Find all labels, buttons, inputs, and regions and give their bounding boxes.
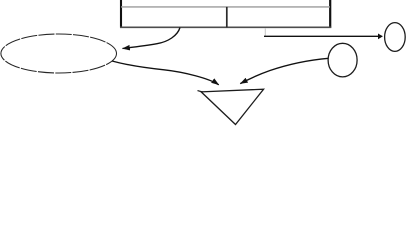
small circle node (far right) [385, 23, 406, 52]
record node: bottom border [120, 26, 331, 28]
arrow: circle to triangle [240, 58, 328, 83]
record node: right border [329, 0, 331, 28]
triangle node (inverted) [198, 89, 264, 124]
ellipse node (left) [1, 34, 117, 73]
connector stub: record node to horizontal arrow [264, 28, 266, 36]
circle node (mid right) [328, 43, 357, 77]
record node: horizontal divider [121, 6, 330, 8]
arrow: ellipse to triangle [112, 61, 219, 85]
record node: vertical cell divider [226, 7, 228, 27]
record node: left border [120, 0, 122, 28]
arrow: record node to ellipse [123, 28, 181, 49]
arrow: horizontal to small circle [264, 35, 382, 37]
